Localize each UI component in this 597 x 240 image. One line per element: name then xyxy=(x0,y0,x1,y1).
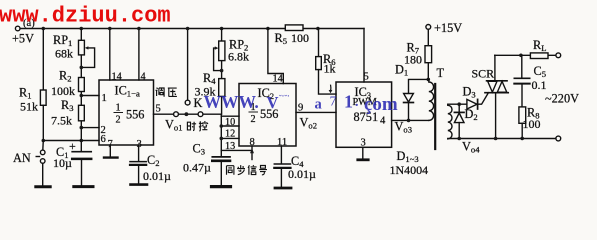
triac SCR bottom bar xyxy=(485,92,508,94)
svg-text:4: 4 xyxy=(380,116,386,127)
arrow IC3 pin 1 xyxy=(330,85,332,90)
pin cell line top xyxy=(221,115,239,117)
capacitor C1 plate top xyxy=(72,151,91,153)
svg-text:~220V: ~220V xyxy=(545,92,579,106)
potentiometer RP2 body xyxy=(219,41,225,61)
node C1 top junction xyxy=(80,139,84,143)
terminal output bottom xyxy=(556,136,561,141)
triac SCR triangle down xyxy=(488,81,497,92)
svg-text:100: 100 xyxy=(523,117,541,131)
op-amp timer IC1 box xyxy=(99,80,154,145)
svg-text:a: a xyxy=(315,97,323,113)
svg-text:WWW.: WWW. xyxy=(204,92,259,112)
svg-text:51k: 51k xyxy=(20,100,38,114)
svg-text:1k: 1k xyxy=(324,62,336,76)
svg-text:100: 100 xyxy=(291,31,309,45)
node bus-R1 xyxy=(42,27,46,31)
svg-text:Vo2: Vo2 xyxy=(300,116,317,131)
wire R6 drop xyxy=(318,29,320,57)
label 同 (of 同步信号) xyxy=(227,166,234,175)
node bus-K xyxy=(186,27,190,31)
node bus-RP2 xyxy=(220,27,224,31)
wire SCR cathode down xyxy=(495,93,497,139)
wire D1 bottom xyxy=(408,103,410,121)
node bus-pin4 xyxy=(137,27,141,31)
svg-text:.: . xyxy=(355,95,359,110)
wire Vo4 bottom line xyxy=(448,138,556,140)
label 控 (of 时控) xyxy=(199,121,208,131)
svg-text:100k: 100k xyxy=(51,84,75,98)
svg-text:2: 2 xyxy=(116,115,121,126)
pin cell line 10/12 xyxy=(221,125,239,127)
svg-text:3: 3 xyxy=(361,138,366,149)
node pin12 xyxy=(220,124,224,128)
wire C1 bottom to ground xyxy=(81,160,83,186)
capacitor C4 plate bottom xyxy=(274,167,290,169)
svg-text:4: 4 xyxy=(141,72,146,83)
resistor R2 xyxy=(79,78,85,92)
node R3 bottom junction xyxy=(80,126,84,130)
pin cell line 12/13 xyxy=(221,137,239,139)
potentiometer RP1 wiper arrowhead xyxy=(85,46,89,49)
timer IC2 box xyxy=(239,84,296,147)
label 信 (of 同步信号) xyxy=(248,165,257,175)
svg-text:Vo4: Vo4 xyxy=(462,140,480,155)
wire R1 bottom xyxy=(42,105,44,140)
pin cell line bottom xyxy=(221,149,251,151)
svg-text:0.01µ: 0.01µ xyxy=(143,169,171,183)
potentiometer RP2 wiper xyxy=(214,48,221,71)
node bus-R5R6 xyxy=(316,27,320,31)
diode D2 triangle xyxy=(454,113,464,123)
wire C5 drop xyxy=(521,55,523,78)
node R7-D1-T xyxy=(427,78,431,82)
node bus-IC2pin14 xyxy=(266,27,270,31)
resistor R6 xyxy=(316,57,322,70)
wire R8 bottom xyxy=(521,123,523,138)
ground C1 xyxy=(74,185,93,188)
svg-text:6: 6 xyxy=(101,134,106,145)
arrowhead sync into pin 8 xyxy=(250,148,254,153)
wire to D1 top xyxy=(409,79,429,93)
svg-text:556: 556 xyxy=(126,108,144,122)
svg-text:5: 5 xyxy=(364,72,369,83)
wire top load line xyxy=(495,54,556,56)
wire AN to ground xyxy=(42,163,44,186)
wire Vo3 IC3 pin4 out xyxy=(392,119,429,121)
wire IC1 pin 7 stub xyxy=(109,145,111,156)
node SCR-Vo4 xyxy=(494,137,498,141)
label 时 (of 时控) xyxy=(187,122,196,131)
node secondary-D2 bottom xyxy=(457,137,461,141)
node bus-RP1 xyxy=(80,27,84,31)
node switch mid xyxy=(185,112,189,116)
label 步 (of 同步信号) xyxy=(237,165,245,175)
svg-text:8: 8 xyxy=(250,137,255,148)
svg-text:R2: R2 xyxy=(59,69,72,84)
svg-text:14: 14 xyxy=(112,72,122,83)
terminal +15V xyxy=(426,25,431,30)
capacitor C2 plate top xyxy=(130,161,146,163)
wire IC1 pin5 Vo1 line xyxy=(154,113,222,115)
ground IC3 pin3 xyxy=(358,158,368,161)
wire C4 to ground xyxy=(280,169,282,187)
svg-text:D1~3: D1~3 xyxy=(397,149,419,164)
wire AN stub xyxy=(42,141,45,151)
node R1-AN junction xyxy=(42,139,46,143)
svg-text:7: 7 xyxy=(108,139,113,150)
svg-text:68k: 68k xyxy=(55,47,73,61)
capacitor C5 plate top xyxy=(514,77,529,79)
node C5 top xyxy=(519,54,523,58)
node pin13 xyxy=(220,137,224,141)
wire IC3 pin 3 stub xyxy=(362,147,364,158)
pwm IC3 box xyxy=(336,82,392,147)
svg-text:3: 3 xyxy=(137,139,142,150)
resistor R1 xyxy=(40,90,46,105)
wire AN lead dash xyxy=(36,156,39,158)
svg-text:13: 13 xyxy=(225,141,235,152)
node RP1 wiper junction xyxy=(80,66,84,70)
transformer T primary winding xyxy=(429,80,434,120)
switch 时控 contact right xyxy=(198,112,203,117)
label IC1 half bar xyxy=(114,112,124,114)
node R8-Vo4 xyxy=(520,137,524,141)
svg-text:C3: C3 xyxy=(193,142,206,157)
wire IC1 pin 4 xyxy=(138,29,140,81)
node bus-pin14 xyxy=(108,27,112,31)
svg-text:12: 12 xyxy=(225,129,235,140)
wire C3 to ground xyxy=(220,162,222,186)
label IC2 half bar xyxy=(249,111,259,113)
transformer T secondary winding xyxy=(448,105,452,139)
resistor R3 xyxy=(79,105,85,121)
capacitor C2 plate bottom xyxy=(130,164,146,166)
switch 时控 contact left xyxy=(174,112,179,117)
terminal K xyxy=(185,100,190,105)
svg-text:C5: C5 xyxy=(534,64,547,79)
wire AN node to IC1 pin 6 xyxy=(43,140,99,142)
node D2 top xyxy=(457,102,461,106)
terminal output top xyxy=(556,53,561,58)
capacitor C4 plate top xyxy=(274,163,290,165)
ground C4 xyxy=(275,187,291,190)
triac SCR top bar xyxy=(487,80,507,82)
resistor RL xyxy=(530,53,548,59)
svg-text:0.01µ: 0.01µ xyxy=(288,167,316,181)
potentiometer RP1 body xyxy=(79,40,85,55)
wire SCR anode up xyxy=(494,55,496,81)
wire K terminal drop xyxy=(187,29,189,101)
wire C2 to ground xyxy=(138,166,140,184)
svg-text:11: 11 xyxy=(277,137,287,148)
diode D3 triangle xyxy=(467,99,477,109)
svg-text:R5: R5 xyxy=(275,31,288,46)
arrowhead IC3 pin1 xyxy=(329,90,333,93)
svg-text:0.1: 0.1 xyxy=(532,78,547,92)
svg-text:D3: D3 xyxy=(463,85,476,100)
wire RP2-R4 chain xyxy=(221,29,223,115)
svg-text:SCR: SCR xyxy=(472,67,495,81)
svg-text:1: 1 xyxy=(344,92,353,112)
wire RP1 drop and divider chain xyxy=(80,29,82,152)
svg-text:0.47µ: 0.47µ xyxy=(183,161,211,175)
svg-text:6.8k: 6.8k xyxy=(228,50,249,64)
svg-text:9: 9 xyxy=(298,103,303,114)
capacitor C5 plate bottom xyxy=(514,83,529,85)
svg-text:V: V xyxy=(267,93,279,112)
svg-text:çom: çom xyxy=(364,94,398,115)
transformer T core xyxy=(434,84,436,149)
svg-text:180: 180 xyxy=(404,53,422,67)
label 调 (of 调压) xyxy=(156,88,165,97)
capacitor C1 plate bottom xyxy=(72,158,91,161)
ground C2 xyxy=(131,183,148,186)
svg-text:RL: RL xyxy=(533,38,546,53)
svg-text:2: 2 xyxy=(251,114,256,125)
node RP2 wiper junction xyxy=(220,69,224,73)
svg-text:10: 10 xyxy=(225,117,235,128)
ground AN xyxy=(36,185,50,188)
wire secondary top xyxy=(448,103,467,105)
svg-text:www.dziuu.com: www.dziuu.com xyxy=(0,3,171,28)
svg-text:1: 1 xyxy=(102,93,107,104)
label 压 (of 调压) xyxy=(168,88,177,97)
capacitor C3 plate bottom xyxy=(212,160,230,163)
svg-text:+15V: +15V xyxy=(434,21,462,35)
switch AN contact bottom xyxy=(40,159,45,164)
resistor R8 xyxy=(519,107,526,123)
wire IC2 pin 14 bent xyxy=(268,29,283,84)
wire D3 to gate xyxy=(478,93,489,105)
svg-text:+5V: +5V xyxy=(12,32,34,46)
diode D2 cathode bar xyxy=(454,111,464,113)
svg-text:R1: R1 xyxy=(19,86,32,101)
ground C3 xyxy=(212,185,231,188)
svg-text:IC1−a: IC1−a xyxy=(115,84,140,99)
wire +5V top bus xyxy=(20,28,364,30)
switch AN contact top xyxy=(40,150,45,155)
wire pin-cell column xyxy=(220,114,222,157)
svg-text:Vo1: Vo1 xyxy=(165,118,182,133)
wire IC1 pin 14 xyxy=(109,29,111,81)
svg-text:10µ: 10µ xyxy=(53,156,72,170)
resistor R5 xyxy=(285,25,303,31)
wire R6 to IC3 pin1 xyxy=(319,70,337,95)
resistor R4 xyxy=(219,79,225,97)
svg-text:AN: AN xyxy=(13,151,31,165)
wire IC3 pin 5 xyxy=(363,29,365,83)
svg-text:C2: C2 xyxy=(147,153,160,168)
node R2-R3 junction xyxy=(80,94,84,98)
node D1-Vo3 xyxy=(407,119,411,123)
wire to IC1 pin 2 xyxy=(81,127,99,129)
terminal +5V xyxy=(15,26,20,31)
svg-text:R3: R3 xyxy=(61,98,74,113)
wire C5 to R8 xyxy=(521,84,523,107)
potentiometer RP1 wiper xyxy=(83,48,95,68)
svg-text:7.5k: 7.5k xyxy=(51,114,72,128)
svg-text:7: 7 xyxy=(330,95,337,110)
wire IC2 pin 8 stub xyxy=(251,146,253,160)
wire R7 bottom xyxy=(427,63,429,80)
wire R1 drop xyxy=(42,29,44,91)
svg-text:+: + xyxy=(69,139,76,153)
svg-text:14: 14 xyxy=(273,74,283,85)
wire D2 xyxy=(458,104,460,138)
svg-text:D2: D2 xyxy=(465,107,478,122)
wire IC2 pin 11 stub xyxy=(280,146,282,164)
wire +15V to R7 xyxy=(427,29,429,45)
potentiometer RP2 wiper arrowhead xyxy=(215,46,219,49)
diode D1 triangle xyxy=(404,94,414,103)
wire IC1 pin 3 stub xyxy=(138,145,140,161)
label 号 (of 同步信号) xyxy=(259,166,267,175)
svg-text:5: 5 xyxy=(156,104,161,115)
wire Vo2 IC2 pin9 to IC3 xyxy=(296,111,336,113)
svg-text:1N4004: 1N4004 xyxy=(390,163,429,177)
ground IC1 pin 7 xyxy=(104,156,118,158)
capacitor C3 plate top xyxy=(212,156,230,158)
svg-text:1: 1 xyxy=(116,103,121,114)
diode D3 cathode bar xyxy=(477,99,479,109)
svg-text:T: T xyxy=(437,66,445,80)
diode D1 cathode bar xyxy=(404,102,414,104)
svg-text:˘˙˘˙: ˘˙˘˙ xyxy=(279,94,290,103)
wire to IC1 pin 1 xyxy=(81,95,99,97)
resistor R7 xyxy=(425,46,432,63)
triac SCR triangle up xyxy=(497,81,507,92)
